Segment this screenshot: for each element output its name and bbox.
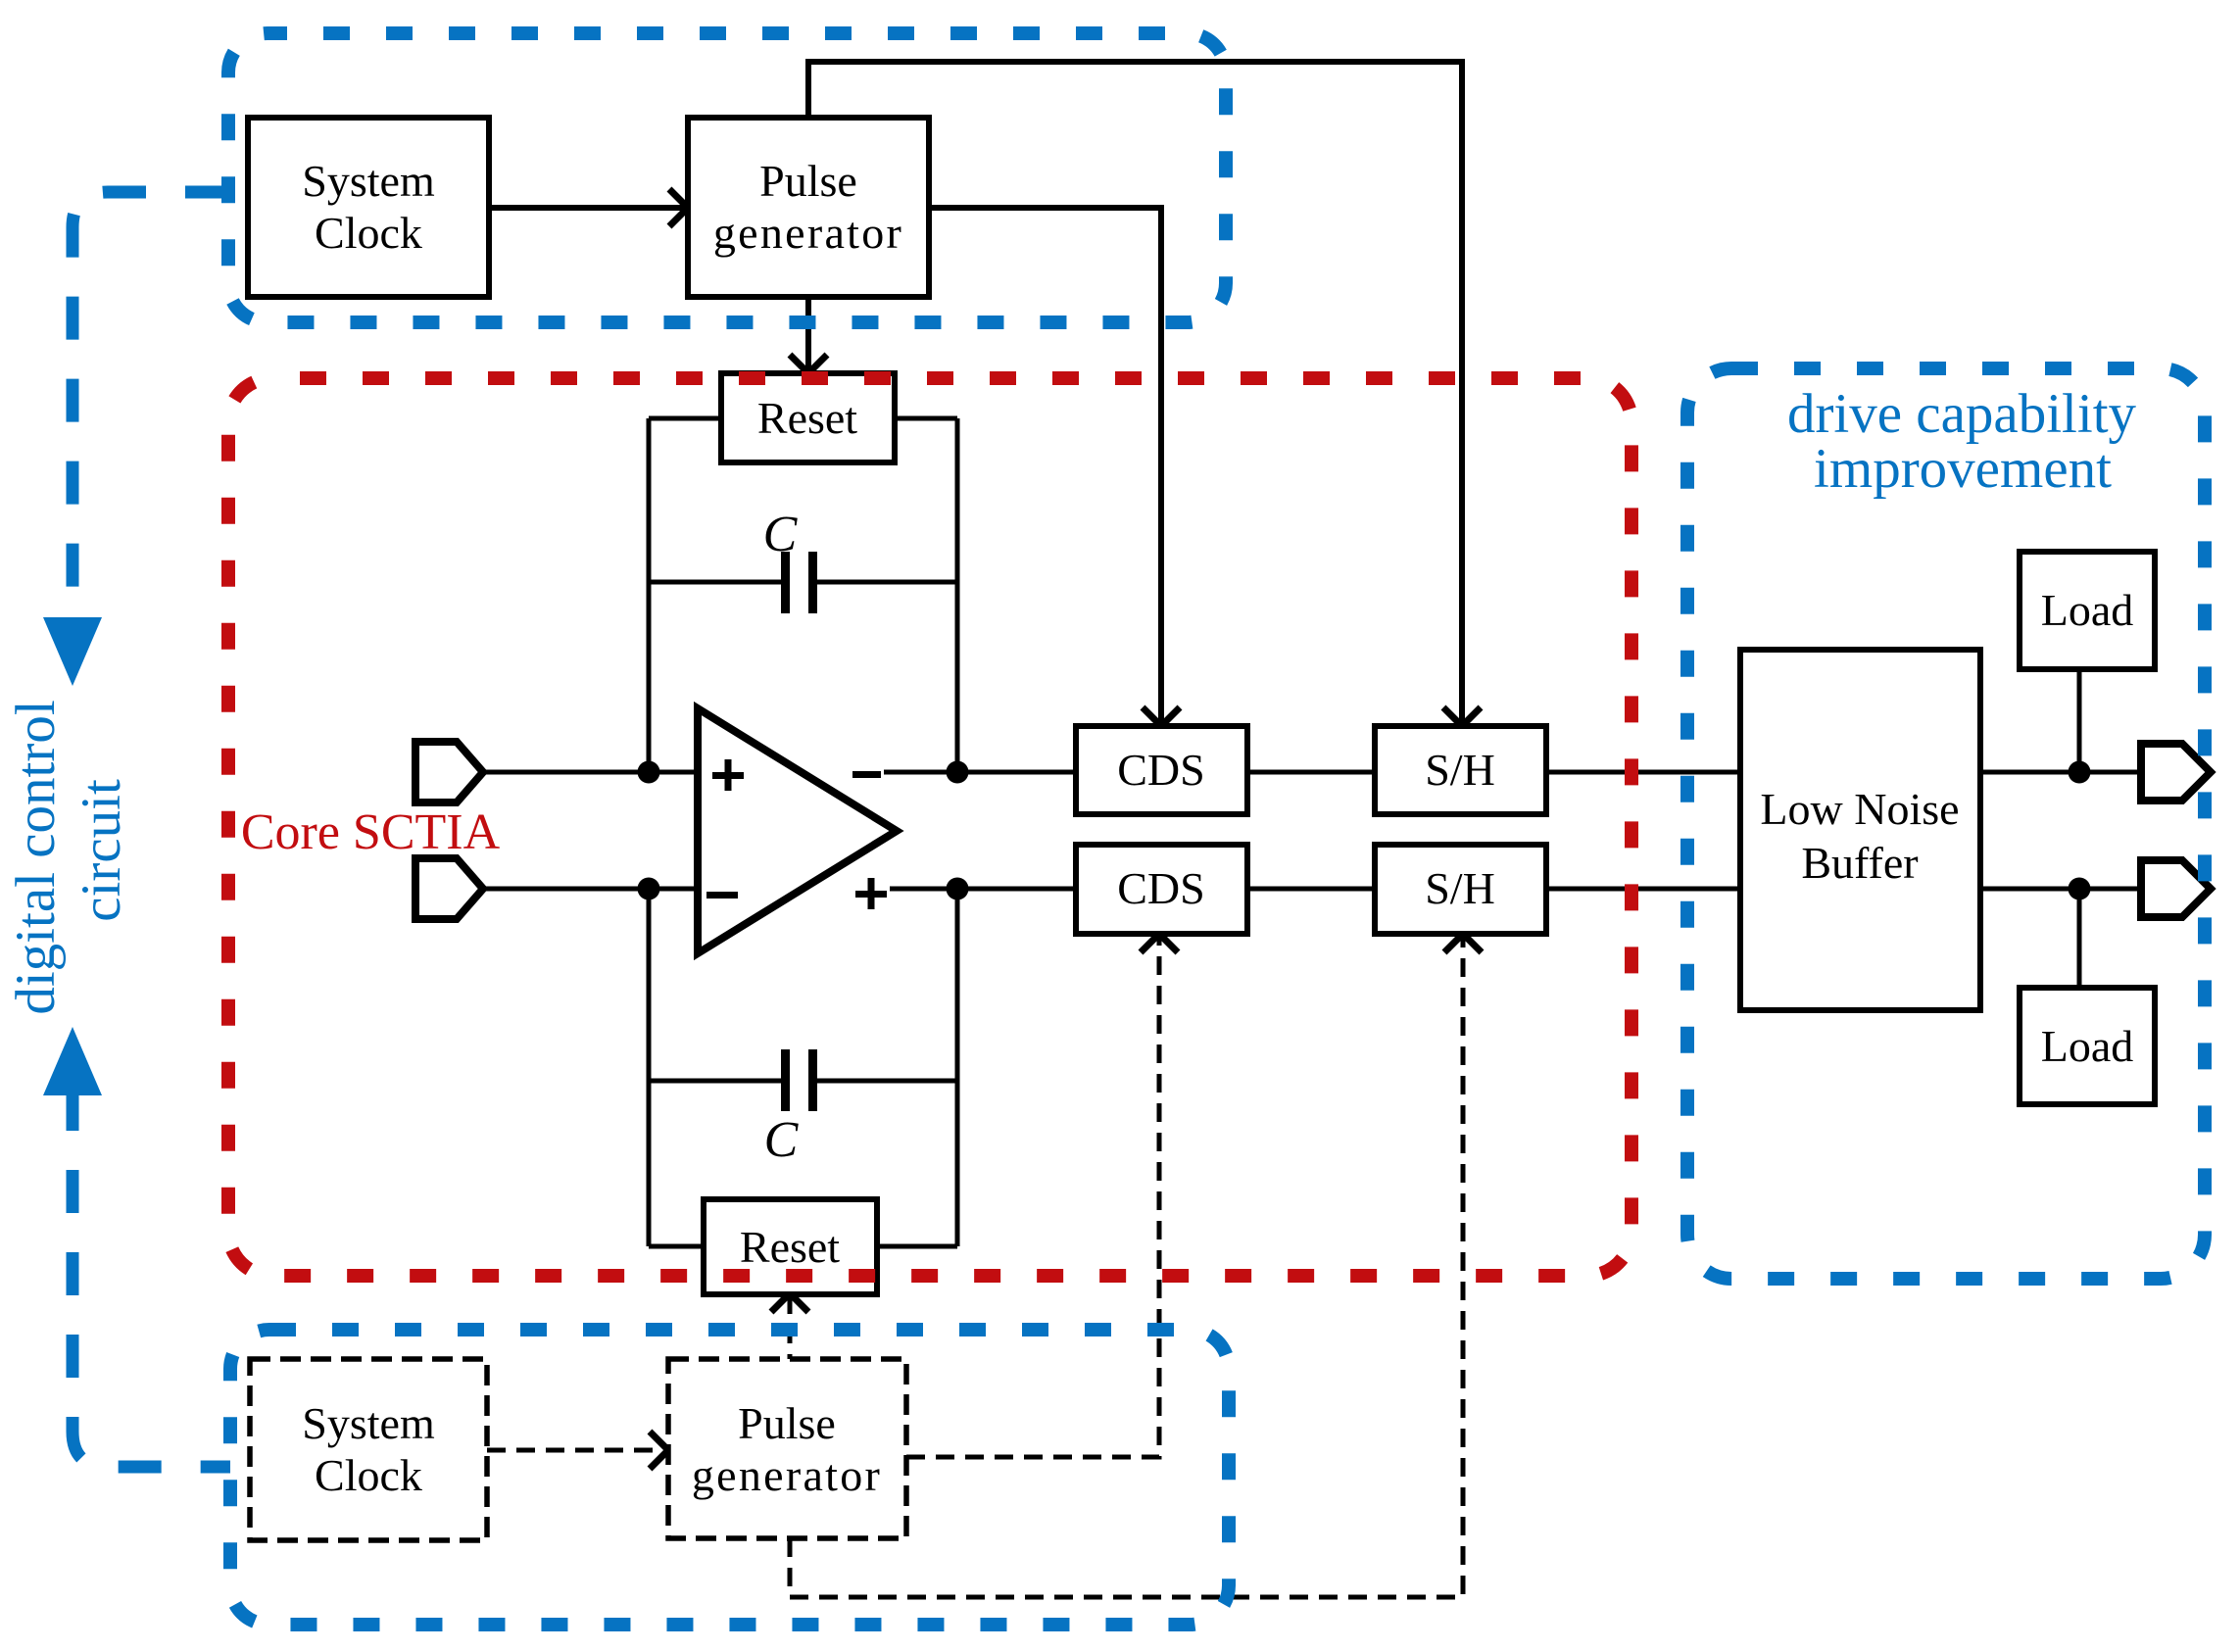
wire capacitor top left [649, 580, 781, 585]
arrowhead into S/H (top) [1443, 707, 1481, 726]
wire capacitor bottom right [816, 1079, 957, 1084]
wire capacitor top right [816, 580, 957, 585]
node output bottom [947, 878, 969, 900]
svg-text:Load: Load [2041, 1021, 2134, 1071]
svg-text:System: System [302, 156, 435, 206]
svg-text:S/H: S/H [1425, 745, 1495, 795]
dashed control: Pulse generator 2 right to CDS bottom [906, 936, 1159, 1457]
node output top [947, 761, 969, 784]
input pad bottom [415, 858, 483, 919]
region drive capability improvement (blue dashed rounded box) [1687, 368, 2205, 1279]
wire Low Noise Buffer to output pad (bottom) [1980, 887, 2141, 892]
svg-text:digital control: digital control [5, 700, 67, 1014]
blue arrowhead down [43, 617, 102, 686]
blue arrowhead up [43, 1027, 102, 1095]
svg-text:C: C [763, 507, 799, 562]
svg-text:System: System [302, 1398, 435, 1448]
wire input pad- to op-amp [480, 887, 698, 892]
wire System Clock to Pulse generator [489, 205, 686, 211]
block CDS (top) [1076, 726, 1247, 814]
svg-text:Load: Load [2041, 585, 2134, 635]
svg-text:C: C [764, 1112, 800, 1168]
wire Low Noise Buffer to output pad (top) [1980, 770, 2141, 775]
arrowhead into Pulse generator [669, 189, 688, 226]
block Load (top) [2020, 552, 2155, 669]
svg-text:Core SCTIA: Core SCTIA [241, 804, 501, 860]
wire input pad+ to op-amp [480, 770, 698, 775]
block System Clock (top) [248, 118, 489, 297]
wire Pulse generator right output to CDS control [927, 208, 1161, 724]
arrowhead into CDS (bottom) [1141, 934, 1178, 952]
wire capacitor bottom left [649, 1079, 781, 1084]
capacitor C bottom plates [781, 1049, 790, 1111]
svg-text:generator: generator [692, 1450, 882, 1500]
block CDS (bottom) [1076, 845, 1247, 934]
wire feedback bottom-left vertical [647, 889, 652, 1246]
svg-text:CDS: CDS [1117, 863, 1204, 913]
svg-text:Pulse: Pulse [759, 156, 857, 206]
svg-text:Pulse: Pulse [738, 1398, 836, 1448]
svg-text:Reset: Reset [757, 393, 857, 443]
wire Pulse generator bottom to Reset [805, 295, 811, 371]
wire S/H to Low Noise Buffer (top) [1546, 770, 1740, 775]
wire Pulse generator top output to S/H control (node at top) [808, 62, 1462, 724]
dashed control: Pulse generator 2 up to Reset bottom [788, 1295, 793, 1359]
block Pulse generator (top) [688, 118, 929, 297]
op-amp + input mark [712, 759, 744, 791]
block Load (bottom) [2020, 988, 2155, 1104]
svg-text:generator: generator [713, 208, 903, 258]
svg-text:Clock: Clock [315, 208, 422, 258]
wire Reset top right [895, 416, 957, 421]
wire Load top to output node [2077, 669, 2082, 772]
region digital control top (blue dashed rounded box) [228, 33, 1226, 322]
wire Reset bottom left [649, 1244, 704, 1249]
capacitor C top plates [781, 552, 790, 613]
arrowhead into Pulse generator 2 [650, 1432, 668, 1469]
wire CDS to S/H (top) [1247, 770, 1375, 775]
output pad bottom [2141, 860, 2211, 917]
block S/H (top) [1375, 726, 1546, 814]
block System Clock (bottom, dashed) [250, 1359, 487, 1540]
input pad top [415, 742, 483, 802]
svg-text:drive capability: drive capability [1787, 383, 2137, 445]
wire feedback bottom-right vertical [955, 889, 960, 1246]
block S/H (bottom) [1375, 845, 1546, 934]
wire Reset bottom right [877, 1244, 957, 1249]
block Reset (bottom) [704, 1199, 877, 1294]
op-amp - input mark [706, 892, 738, 899]
blue dashed link from top region to label [73, 192, 228, 627]
arrowhead into S/H (bottom) [1444, 934, 1482, 952]
wire feedback top-left vertical [647, 418, 652, 772]
svg-text:CDS: CDS [1117, 745, 1204, 795]
node buffer out top [2069, 761, 2091, 784]
node buffer out bottom [2069, 878, 2091, 900]
node input bottom [638, 878, 660, 900]
block Low Noise Buffer [1740, 650, 1980, 1010]
svg-text:Low Noise: Low Noise [1760, 784, 1959, 834]
wire Reset top left [649, 416, 721, 421]
wire op-amp out- to CDS top [884, 770, 1076, 775]
arrowhead into Reset (bottom) [771, 1293, 808, 1312]
svg-text:improvement: improvement [1814, 438, 2112, 500]
op-amp + output mark [855, 878, 887, 909]
arrowhead into Reset (top) [790, 355, 827, 373]
svg-text:S/H: S/H [1425, 863, 1495, 913]
output pad top [2141, 744, 2211, 801]
block Reset (top) [721, 373, 895, 462]
svg-text:circuit: circuit [71, 779, 132, 922]
node input top [638, 761, 660, 784]
op-amp - output mark [852, 771, 881, 778]
wire op-amp out+ to CDS bottom [890, 887, 1076, 892]
wire S/H to Low Noise Buffer (bottom) [1546, 887, 1740, 892]
svg-text:Clock: Clock [315, 1450, 422, 1500]
wire Load bottom to output node [2077, 889, 2082, 988]
region digital control bottom (blue dashed rounded box) [230, 1330, 1229, 1625]
svg-text:Buffer: Buffer [1801, 838, 1918, 888]
wire feedback top-right vertical [955, 418, 960, 772]
wire CDS to S/H (bottom) [1247, 887, 1375, 892]
block Pulse generator (bottom, dashed) [668, 1359, 906, 1538]
op-amp U1 [698, 708, 897, 953]
dashed control: Pulse generator 2 down/right/up to S/H bottom [790, 936, 1463, 1597]
blue dashed link from bottom region to label [73, 1088, 230, 1467]
dashed wire System Clock 2 to Pulse generator 2 [487, 1448, 666, 1453]
arrowhead into CDS (top) [1143, 707, 1180, 726]
region Core SCTIA (red dashed rounded box) [228, 378, 1631, 1276]
svg-text:Reset: Reset [740, 1222, 840, 1272]
